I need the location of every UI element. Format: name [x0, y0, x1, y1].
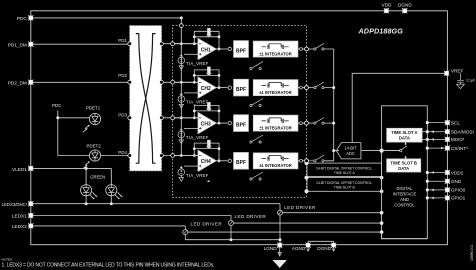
svg-text:TIME SLOT A: TIME SLOT A [334, 171, 356, 175]
svg-text:PD3: PD3 [118, 113, 127, 118]
svg-text:14-BIT DIGITAL OFFSET CONTROL,: 14-BIT DIGITAL OFFSET CONTROL, [316, 181, 373, 185]
switch channel combine 2-3 [250, 99, 263, 107]
svg-text:PD4: PD4 [118, 150, 127, 155]
svg-text:TIA_VREF: TIA_VREF [186, 100, 209, 105]
svg-text:SCL: SCL [451, 120, 461, 125]
svg-text:LED DRIVER: LED DRIVER [235, 214, 267, 219]
ADC out node dot [380, 149, 384, 153]
wire CH1 output [216, 48, 227, 50]
wire LEDX2 pin to driver1 [31, 225, 186, 227]
pin SCL [445, 120, 450, 125]
pin PDC [28, 15, 33, 20]
svg-text:PDET2: PDET2 [87, 144, 102, 149]
LED driver 1 current source [183, 226, 188, 240]
svg-text:LED DRIVER: LED DRIVER [284, 205, 316, 210]
integrator CH3 [253, 115, 298, 131]
svg-text:MISO¹: MISO¹ [451, 137, 465, 142]
wire driver ground rail to LGND [185, 240, 280, 246]
switch CH2 to ADC bus [308, 82, 333, 89]
wire integrator out CH2 [298, 87, 305, 89]
svg-text:14-BIT DIGITAL OFFSET CONTROL,: 14-BIT DIGITAL OFFSET CONTROL, [316, 166, 373, 170]
op-amp CH3 TIA [198, 113, 216, 134]
input mux box [130, 26, 162, 171]
stray mark below CH4 [208, 181, 210, 183]
pin GPIO1 [445, 195, 450, 200]
wire PD2 pin to mux [31, 81, 130, 83]
integrator CH1 [253, 41, 298, 57]
VREF external cap [457, 73, 465, 88]
wire CH2 input [175, 81, 199, 83]
wire PDC pin to bus [31, 18, 182, 156]
photodiode PDET1 [83, 113, 101, 132]
pin DGND [331, 243, 336, 248]
pin MISO¹ [445, 137, 450, 142]
switch CH4 to ADC bus [308, 155, 333, 162]
svg-text:±1 INTEGRATOR: ±1 INTEGRATOR [259, 125, 291, 130]
feedback network CH1 [194, 28, 219, 49]
feedback network CH3 [194, 102, 219, 123]
svg-text:VREF: VREF [451, 69, 464, 74]
wire driver1 to digital box [188, 231, 382, 233]
svg-text:0.1µF: 0.1µF [467, 79, 475, 83]
integrator CH2 [253, 80, 298, 96]
pin VREF [444, 71, 449, 76]
TIA_VREF source CH2 [178, 93, 185, 104]
svg-text:14-BIT: 14-BIT [344, 146, 357, 151]
svg-text:LEDX2: LEDX2 [12, 224, 27, 229]
pin PD2_DM [28, 80, 33, 85]
wire integrator out CH3 [298, 122, 305, 124]
svg-text:ADPD188GG: ADPD188GG [358, 27, 404, 36]
svg-text:INTERFACE: INTERFACE [393, 192, 417, 197]
feedback network CH2 [194, 67, 219, 88]
svg-text:1. LEDX3 = DO NOT CONNECT AN E: 1. LEDX3 = DO NOT CONNECT AN EXTERNAL LE… [2, 262, 215, 268]
pin VLED1 [28, 166, 33, 171]
photodiode PDET2 [83, 150, 101, 169]
junction dots CH3 [180, 110, 221, 125]
svg-text:CH2: CH2 [201, 86, 211, 92]
LED driver 3 current source [278, 204, 283, 240]
BPF CH2 [234, 79, 249, 96]
svg-text:TIA_VREF: TIA_VREF [186, 135, 209, 140]
switch CH3 to ADC bus [308, 118, 333, 125]
svg-text:VDD2: VDD2 [451, 170, 464, 175]
wire driver3 to digital box [283, 212, 382, 214]
pin LEDX2 [28, 223, 33, 228]
feedback network CH4 [194, 140, 219, 161]
wire LEDX1 pin to driver2 [31, 215, 231, 217]
svg-text:TIA_VREF: TIA_VREF [186, 61, 209, 66]
svg-text:±1 INTEGRATOR: ±1 INTEGRATOR [259, 51, 291, 56]
TIA_VREF source CH1 [178, 54, 185, 65]
LED 1 green [81, 185, 97, 199]
wire CH4 input [175, 155, 199, 157]
wire PDC node to photodiodes [58, 111, 90, 156]
wire CH1 + input [184, 53, 198, 55]
digital interface box [382, 106, 428, 239]
wire integrator out CH1 [298, 48, 305, 50]
wire CH3 + input [184, 127, 198, 129]
svg-text:SDA/MOSI: SDA/MOSI [451, 130, 474, 135]
svg-text:CONTROL: CONTROL [394, 203, 415, 208]
switch below CH4 [250, 172, 263, 180]
svg-text:DGND: DGND [398, 3, 412, 8]
svg-text:VLED1: VLED1 [12, 167, 27, 172]
svg-text:±1 INTEGRATOR: ±1 INTEGRATOR [259, 163, 291, 168]
wire ADC output [361, 150, 400, 152]
svg-text:BPF: BPF [236, 122, 246, 128]
junction dots left [56, 16, 183, 205]
svg-text:VDD: VDD [381, 3, 392, 8]
pin SDA/MOSI [445, 129, 450, 134]
direction arrows on interface pin wires [431, 130, 445, 199]
mux input labels [118, 38, 127, 155]
ADC 14-bit [336, 143, 361, 159]
svg-text:AGND: AGND [292, 246, 306, 251]
arrow below DGND [332, 247, 335, 251]
mux port circles [128, 42, 164, 158]
pin VDD [384, 8, 389, 13]
svg-text:PD1_DM: PD1_DM [8, 42, 27, 47]
svg-text:GPIO0: GPIO0 [451, 188, 466, 193]
wire digital box bottom [382, 232, 428, 239]
wires mux to AFE [163, 44, 198, 156]
junction dots CH1 [180, 35, 221, 50]
wire CH2 + input [184, 92, 198, 94]
LED driver 2 current source [229, 216, 234, 240]
svg-text:GREEN: GREEN [90, 174, 105, 179]
wire CH2 output [216, 87, 227, 89]
svg-text:DGND: DGND [317, 246, 331, 251]
svg-text:DIGITAL: DIGITAL [397, 186, 414, 191]
wire VLED pin to LED anodes [31, 168, 112, 184]
svg-text:CS/INT¹: CS/INT¹ [451, 146, 468, 151]
wire PDET2 to mux row4 [101, 155, 130, 157]
svg-text:PD1: PD1 [118, 38, 127, 43]
wire CH4 + input [184, 165, 198, 167]
TIA_VREF source CH4 [178, 166, 185, 177]
pin DGND [402, 8, 407, 13]
svg-text:CH4: CH4 [201, 159, 211, 165]
LED 2 green [106, 185, 122, 199]
svg-text:DATA: DATA [399, 136, 410, 141]
pin LEDX3/DNC¹ [28, 201, 33, 206]
digital offset cal box time slot A [307, 163, 382, 191]
svg-text:LGND: LGND [264, 246, 278, 251]
svg-text:CH1: CH1 [201, 47, 211, 53]
wire ground links AGND DGND [308, 241, 334, 245]
digital box left edge taps [230, 211, 384, 241]
integrator CH4 [253, 153, 298, 169]
mux cross graphic [136, 34, 156, 164]
svg-text:PDC: PDC [52, 103, 61, 108]
switch CH1 to ADC bus [308, 43, 333, 50]
time slot select switch [384, 142, 407, 159]
svg-text:LEDX1: LEDX1 [12, 214, 27, 219]
switch channel combine 1-2 [250, 62, 263, 70]
AFE edge circles [171, 24, 309, 163]
ADC input bus [324, 49, 339, 161]
time slot B data register [387, 159, 421, 172]
wire VREF from ADC [352, 73, 445, 142]
TIA_VREF source CH3 [178, 128, 185, 139]
pin VDD2 [445, 170, 450, 175]
svg-text:TIME SLOT B: TIME SLOT B [334, 185, 356, 189]
svg-text:GPIO1: GPIO1 [451, 196, 466, 201]
BPF CH1 [234, 41, 249, 58]
svg-text:PDET1: PDET1 [86, 106, 101, 111]
BPF CH3 [234, 115, 249, 132]
BPF CH4 [234, 153, 249, 170]
svg-text:BPF: BPF [236, 48, 246, 54]
wire LED cathodes to LEDX3 net and driver3 [31, 196, 280, 204]
svg-text:CH3: CH3 [201, 122, 211, 128]
pin CS/INT¹ [445, 146, 450, 151]
ground symbol below LGND [279, 247, 281, 256]
time slot A data register [387, 128, 422, 142]
junction dots on digital box right edge [426, 121, 429, 199]
wire CH3 input [175, 117, 199, 119]
AFE analog block dashed box [173, 26, 307, 198]
pin GPIO0 [445, 187, 450, 192]
pin PD1_DM [28, 42, 33, 47]
wire driver2 to digital box [234, 222, 382, 224]
wire CH3 output [216, 122, 227, 124]
wire PD1 pin to mux [31, 43, 130, 45]
svg-text:DATA: DATA [398, 166, 409, 171]
pin GND [445, 179, 450, 184]
wire CH4 output [216, 160, 227, 162]
wires digital box to interface pins [422, 123, 447, 198]
wire integrator out CH4 [298, 160, 305, 162]
svg-text:PD2: PD2 [118, 73, 127, 78]
junction dots CH4 [180, 147, 221, 162]
junction dots CH2 [180, 74, 221, 89]
pin LGND [277, 243, 282, 248]
wire CH1 input [175, 43, 199, 45]
svg-text:±1 INTEGRATOR: ±1 INTEGRATOR [259, 90, 291, 95]
svg-text:BPF: BPF [236, 160, 246, 166]
svg-text:16999-001: 16999-001 [470, 245, 474, 261]
svg-text:AND: AND [400, 197, 409, 202]
op-amp CH4 TIA [198, 150, 216, 171]
chip outline ADPD188GG [31, 11, 448, 245]
svg-text:BPF: BPF [236, 87, 246, 93]
svg-text:TIA_VREF: TIA_VREF [186, 173, 209, 178]
svg-text:GND: GND [451, 179, 462, 184]
pin AGND [306, 243, 311, 248]
op-amp CH2 TIA [198, 77, 216, 98]
svg-text:PD2_DM: PD2_DM [8, 81, 27, 86]
svg-text:PDC: PDC [17, 16, 28, 21]
svg-text:NOTES: NOTES [2, 257, 13, 261]
op-amp CH1 TIA [198, 38, 216, 59]
svg-text:TIME SLOT A: TIME SLOT A [391, 130, 417, 135]
switch channel combine 3-4 [250, 135, 263, 143]
pin LEDX1 [28, 213, 33, 218]
svg-text:LEDX3/DNC¹: LEDX3/DNC¹ [2, 202, 28, 207]
svg-text:TIME SLOT B: TIME SLOT B [390, 161, 417, 166]
arrow below AGND [307, 247, 310, 251]
svg-text:ADC: ADC [346, 151, 355, 156]
svg-text:LED DRIVER: LED DRIVER [191, 221, 223, 226]
